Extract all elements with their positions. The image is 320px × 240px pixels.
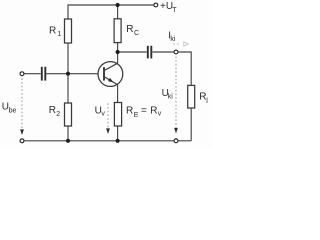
svg-text:2: 2 <box>56 111 60 118</box>
svg-text:R: R <box>49 26 56 37</box>
svg-text:C: C <box>134 30 139 37</box>
svg-text:ki: ki <box>168 93 174 100</box>
svg-text:R: R <box>150 106 157 117</box>
svg-text:l: l <box>206 98 208 105</box>
svg-text:v: v <box>158 111 162 118</box>
svg-text:R: R <box>49 105 56 116</box>
svg-text:=: = <box>141 106 147 117</box>
svg-text:E: E <box>134 112 139 119</box>
svg-text:ki: ki <box>170 36 176 43</box>
svg-text:+U: +U <box>160 1 173 12</box>
svg-text:1: 1 <box>57 31 61 38</box>
svg-text:T: T <box>172 7 177 14</box>
svg-text:be: be <box>9 107 17 114</box>
svg-text:R: R <box>126 24 133 35</box>
svg-text:v: v <box>101 111 105 118</box>
svg-text:R: R <box>126 106 133 117</box>
